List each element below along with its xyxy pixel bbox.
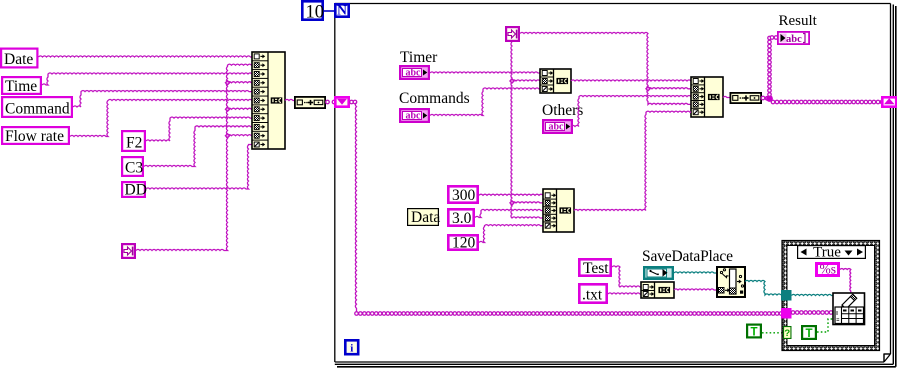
wire path to build path (teal) bbox=[674, 272, 716, 273]
wire 300 to U3 t1 bbox=[479, 194, 543, 195]
string control Commands bbox=[400, 109, 429, 122]
wire U2 output to U4 t1 bbox=[571, 80, 691, 81]
end-of-line constant EOL1 bbox=[506, 27, 519, 41]
svg-text:%s: %s bbox=[820, 262, 837, 277]
boolean constant T (inside case) bbox=[802, 326, 816, 340]
wire EOL1 branch to U4 t2 bbox=[648, 88, 691, 89]
string constant DD bbox=[122, 182, 147, 199]
svg-text:C3: C3 bbox=[125, 160, 143, 177]
svg-text:3.0: 3.0 bbox=[452, 210, 472, 227]
diagram edge lines bbox=[335, 5, 896, 367]
build array A1 bbox=[295, 97, 325, 108]
svg-text:10: 10 bbox=[306, 3, 325, 23]
wire A1 to loop tunnel (array) bbox=[326, 100, 336, 104]
string constant Date bbox=[1, 49, 37, 68]
svg-text:True: True bbox=[813, 245, 841, 261]
label Timer bbox=[400, 49, 438, 66]
string constant Test bbox=[579, 259, 610, 277]
case selector terminal ? bbox=[784, 327, 791, 339]
wire %s to format node bbox=[840, 269, 851, 293]
wire Others to U4 t3 bbox=[571, 96, 691, 127]
svg-text:Timer: Timer bbox=[400, 49, 438, 66]
svg-text:Result: Result bbox=[779, 13, 818, 29]
case structure border bbox=[782, 241, 880, 351]
wire U4 output to build array A2 bbox=[723, 96, 730, 97]
build path node bbox=[717, 267, 745, 297]
wire teal tunnel to format node bbox=[792, 294, 834, 295]
label Others bbox=[542, 102, 583, 119]
wire EOL1 down branch bbox=[511, 42, 543, 218]
label Result bbox=[779, 13, 818, 29]
wire Time to concat U1 t3 bbox=[42, 73, 252, 85]
string control Others bbox=[543, 120, 572, 133]
svg-text:abc: abc bbox=[786, 34, 802, 45]
wire F2 to concat U1 t8 bbox=[146, 117, 252, 141]
string constant 3.0 bbox=[448, 209, 473, 227]
wire build path to case (teal) bbox=[745, 280, 781, 295]
concatenate strings U4 bbox=[691, 77, 723, 117]
concatenate strings U5 bbox=[641, 282, 674, 298]
svg-text:Others: Others bbox=[542, 102, 583, 119]
wire Date to concat U1 t1 bbox=[39, 56, 253, 57]
free label Data bbox=[408, 209, 441, 226]
wire 10 to N terminal bbox=[324, 10, 335, 12]
for loop border bbox=[335, 4, 891, 363]
svg-text:N: N bbox=[337, 3, 347, 18]
svg-text:300: 300 bbox=[452, 187, 476, 204]
svg-text:120: 120 bbox=[452, 235, 476, 252]
label SaveDataPlace bbox=[642, 248, 733, 265]
wire Commands to U2 t3 bbox=[430, 88, 540, 116]
boolean constant T (outside case) bbox=[747, 325, 761, 339]
wire U1 output to build array A1 bbox=[285, 99, 294, 100]
junction EOL1-U4t2 bbox=[645, 86, 651, 92]
wire .txt to U5 t2 bbox=[608, 293, 641, 294]
svg-text:Date: Date bbox=[4, 51, 33, 68]
wire EOL2 to concat U1 t2 bbox=[136, 64, 252, 250]
label Commands bbox=[399, 90, 470, 107]
junction EOL1-U3t2 bbox=[509, 200, 515, 206]
svg-text:DD: DD bbox=[125, 182, 147, 199]
wire DD to concat U1 t11 bbox=[146, 145, 252, 190]
string control Timer bbox=[400, 66, 429, 79]
wire array along bottom to case tunnel bbox=[355, 312, 783, 316]
wire junction right to loop tunnel (array) bbox=[771, 100, 884, 104]
svg-text:Time: Time bbox=[5, 78, 37, 95]
wire Timer to U2 t1 bbox=[430, 72, 540, 73]
svg-text:abc: abc bbox=[406, 68, 422, 79]
concatenate strings U1 bbox=[252, 52, 285, 149]
path control SaveDataPlace bbox=[644, 267, 673, 279]
wire 3.0 to U3 t3 bbox=[475, 209, 543, 217]
svg-text:F2: F2 bbox=[126, 135, 142, 152]
wire EOL2 branch t10 bbox=[228, 135, 253, 136]
svg-text:i: i bbox=[350, 343, 353, 355]
wire EOL1 right branch bbox=[520, 32, 691, 104]
svg-text:?: ? bbox=[784, 328, 790, 339]
string constant Command bbox=[2, 97, 72, 117]
svg-text:Data: Data bbox=[411, 209, 440, 226]
wire EOL1 branch to U2 t2 bbox=[512, 80, 540, 81]
wire U5 output to build path bbox=[674, 289, 716, 290]
svg-text:T: T bbox=[805, 328, 812, 340]
wire Flow rate to concat U1 t6 bbox=[70, 99, 252, 136]
junction node array bbox=[766, 95, 773, 102]
wire EOL2 branch t4 bbox=[228, 82, 253, 83]
wire Command to concat U1 t5 bbox=[73, 91, 252, 108]
string constant 120 bbox=[448, 235, 477, 252]
string array indicator Result bbox=[778, 32, 809, 45]
wire 120 to U3 t5 bbox=[479, 225, 543, 243]
svg-text:Command: Command bbox=[5, 101, 70, 118]
svg-text:SaveDataPlace: SaveDataPlace bbox=[642, 248, 733, 265]
end-of-line constant EOL2 bbox=[122, 244, 135, 258]
junction EOL2-t10 bbox=[225, 133, 231, 139]
wire C3 to concat U1 t9 bbox=[144, 126, 252, 167]
string constant %s bbox=[817, 262, 839, 277]
svg-text:abc: abc bbox=[406, 111, 422, 122]
svg-text:T: T bbox=[750, 327, 757, 339]
svg-text:Test: Test bbox=[583, 260, 609, 277]
tunnel out (right border) bbox=[882, 97, 896, 106]
string constant .txt bbox=[579, 284, 606, 303]
format into file node bbox=[833, 293, 865, 325]
svg-text:abc: abc bbox=[549, 122, 565, 133]
tunnel string (magenta solid) bbox=[781, 308, 792, 319]
concatenate strings U3 bbox=[543, 189, 574, 232]
wire A2 to junction (array) bbox=[761, 96, 769, 100]
tunnel path (teal solid) bbox=[781, 290, 792, 301]
svg-text:.txt: .txt bbox=[582, 287, 603, 304]
wire Test to U5 t1 bbox=[612, 266, 641, 287]
string constant Time bbox=[2, 77, 41, 95]
junction EOL2-t4 bbox=[225, 80, 231, 86]
wire T to case selector (dotted green) bbox=[762, 332, 783, 334]
wire junction up to Result (array) bbox=[768, 36, 778, 97]
wire inside T to format node (dotted green) bbox=[817, 319, 833, 332]
svg-text:Commands: Commands bbox=[399, 90, 470, 107]
concatenate strings U2 bbox=[540, 69, 571, 93]
loop iteration terminal i bbox=[345, 340, 358, 354]
string constant Flow rate bbox=[2, 127, 69, 145]
svg-text:Flow rate: Flow rate bbox=[5, 128, 64, 145]
page fold corner bbox=[884, 354, 891, 362]
junction EOL1-U2t2 bbox=[509, 78, 515, 84]
junction EOL2-t7 bbox=[225, 106, 231, 112]
wire EOL2 branch t7 bbox=[228, 108, 253, 109]
tunnel in (left border) bbox=[335, 97, 348, 106]
loop count terminal N bbox=[335, 3, 348, 18]
wire tunnel down bbox=[350, 100, 357, 311]
wire U3 output to U4 t5 bbox=[574, 111, 691, 210]
string constant C3 bbox=[122, 157, 143, 176]
numeric constant 10 bbox=[302, 1, 324, 22]
string constant 300 bbox=[448, 186, 477, 204]
svg-text:=: = bbox=[836, 318, 839, 324]
case selector label True bbox=[798, 245, 866, 261]
wire EOL1 branch to U3 t2 bbox=[512, 202, 543, 203]
string constant F2 bbox=[122, 131, 145, 151]
wire magenta tunnel to format node (array) bbox=[791, 311, 833, 315]
build array A2 bbox=[730, 93, 761, 103]
